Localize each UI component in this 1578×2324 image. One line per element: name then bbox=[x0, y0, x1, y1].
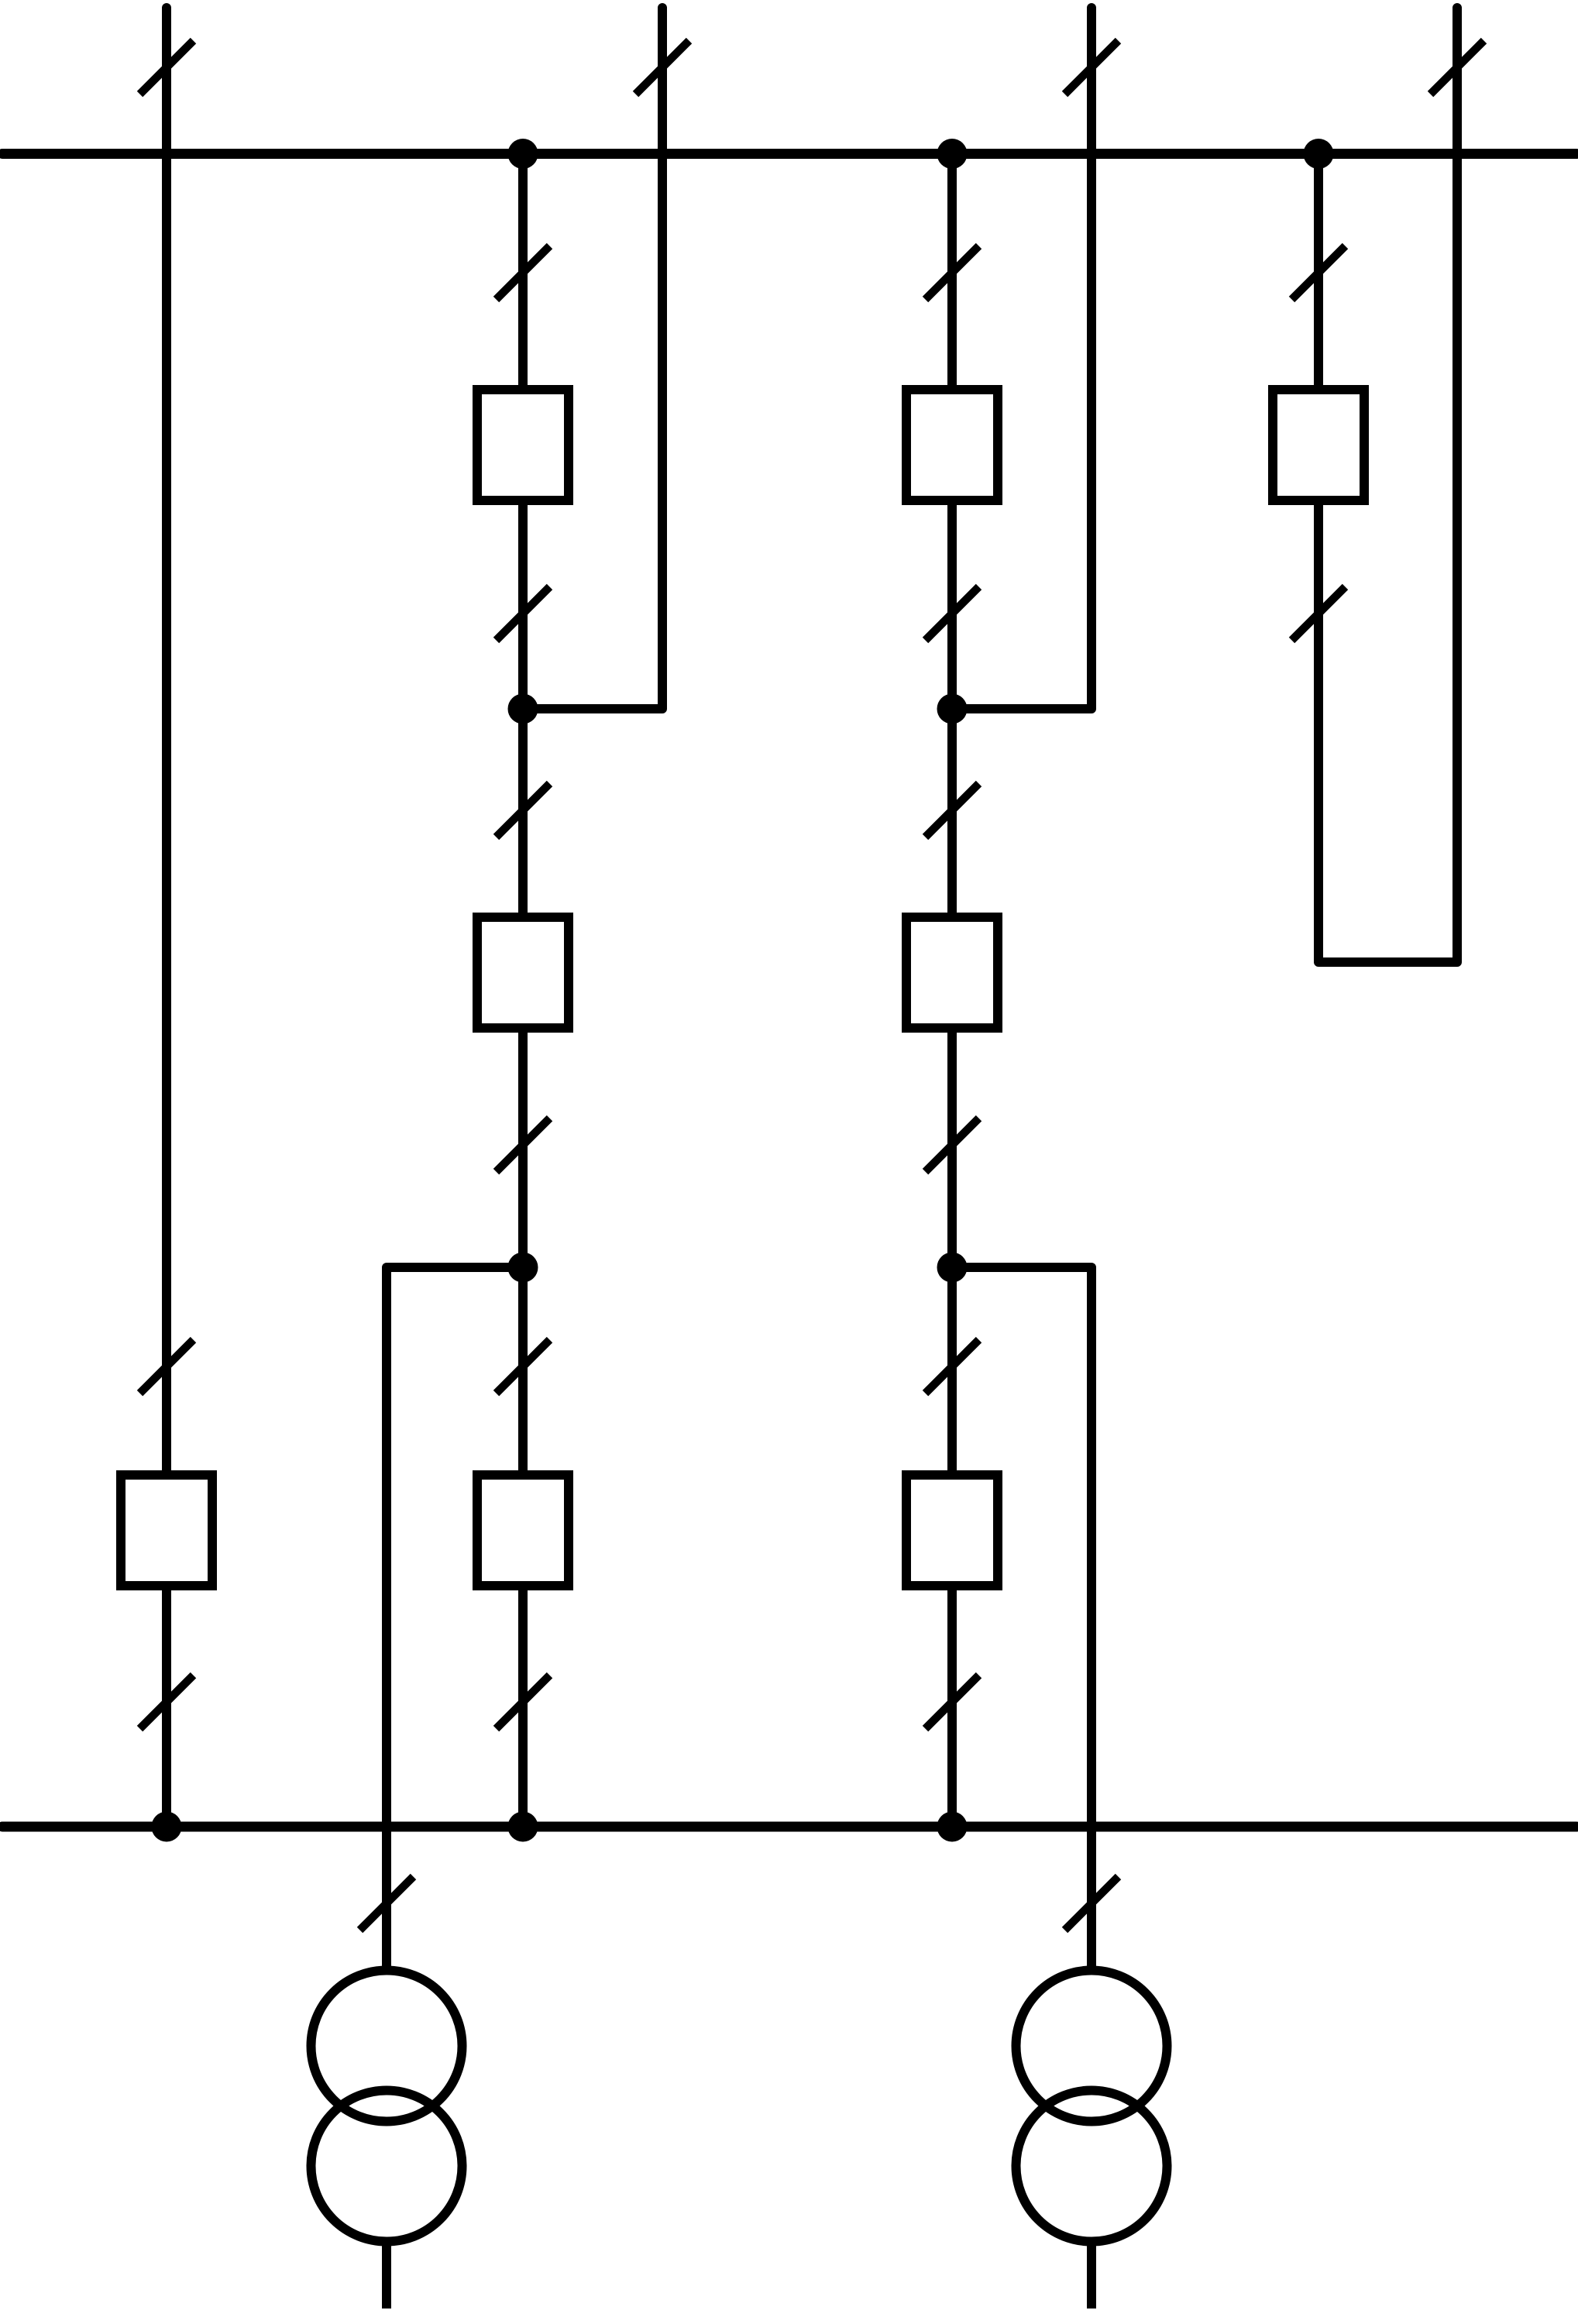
circuit breaker QF2 (bay A, upper) bbox=[477, 390, 569, 500]
junction dot: node A1 bbox=[508, 694, 538, 724]
disconnector QS6 slash (line exit x=855, above top bus) bbox=[636, 41, 689, 95]
disconnector QS21 slash (bay C, below QF8) bbox=[1292, 587, 1346, 641]
disconnector QS10 slash (bay A, below QF4) bbox=[497, 1676, 550, 1729]
wire: bay A vertical x=675 bbox=[518, 154, 528, 1827]
circuit breaker QF8 (bay C) bbox=[1273, 390, 1364, 500]
disconnector QS5 slash (bay A, below QF2) bbox=[497, 587, 550, 641]
wire: left feeder vertical x=215 bbox=[162, 8, 171, 1827]
junction dot: bay A to top bus bbox=[508, 139, 538, 169]
disconnector QS17 slash (bay B, below node B2) bbox=[926, 1340, 979, 1394]
wire: branch from node A2 to transformer T1 bbox=[387, 1267, 523, 1968]
disconnector QS15 slash (bay B, below node B1) bbox=[926, 784, 979, 837]
circuit breaker QF6 (bay B, middle) bbox=[906, 917, 998, 1028]
disconnector QS4 slash (bay A, below top bus) bbox=[497, 246, 550, 300]
transformer T2 secondary winding bbox=[1016, 2091, 1167, 2242]
disconnector QS2 slash (left feeder, above breaker QF1) bbox=[140, 1340, 194, 1394]
disconnector QS18 slash (bay B, below QF7) bbox=[926, 1676, 979, 1729]
junction dot: left feeder to bottom bus bbox=[152, 1812, 182, 1842]
circuit breaker QF4 (bay A, lower) bbox=[477, 1475, 569, 1586]
wire: transformer T2 tail bbox=[1087, 2242, 1096, 2309]
junction dot: node B1 bbox=[937, 694, 968, 724]
disconnector QS1 slash (left feeder, above top bus) bbox=[140, 41, 194, 95]
bottom busbar W2 bbox=[2, 1822, 1576, 1832]
wire: transformer T1 tail bbox=[382, 2242, 391, 2309]
top busbar W1 bbox=[2, 149, 1576, 159]
junction dot: bay A to bottom bus bbox=[508, 1812, 538, 1842]
junction dot: node A2 bbox=[508, 1253, 538, 1283]
junction dot: bay B to bottom bus bbox=[937, 1812, 968, 1842]
disconnector QS13 slash (bay B, below QF5) bbox=[926, 587, 979, 641]
wire: bypass from node A1 up to line exit x=855 bbox=[523, 8, 662, 709]
disconnector QS11 slash (transformer T1 branch, below bottom bus) bbox=[360, 1877, 414, 1930]
disconnector QS8 slash (bay A, below QF3) bbox=[497, 1119, 550, 1172]
disconnector QS12 slash (bay B, below top bus) bbox=[926, 246, 979, 300]
disconnector QS19 slash (transformer T2 branch, below bottom bus) bbox=[1065, 1877, 1119, 1930]
junction dot: node B2 bbox=[937, 1253, 968, 1283]
circuit breaker QF7 (bay B, lower) bbox=[906, 1475, 998, 1586]
transformer T1 primary winding bbox=[311, 1971, 462, 2122]
disconnector QS9 slash (bay A, below node A2) bbox=[497, 1340, 550, 1394]
circuit breaker QF5 (bay B, upper) bbox=[906, 390, 998, 500]
disconnector QS22 slash (line exit x=1881, above top bus) bbox=[1431, 41, 1484, 95]
wire: branch from node B2 to transformer T2 bbox=[952, 1267, 1092, 1968]
circuit breaker QF3 (bay A, middle) bbox=[477, 917, 569, 1028]
disconnector QS20 slash (bay C, below top bus) bbox=[1292, 246, 1346, 300]
wire: bay B vertical x=1229 bbox=[947, 154, 957, 1827]
disconnector QS14 slash (line exit x=1409, above top bus) bbox=[1065, 41, 1119, 95]
transformer T1 secondary winding bbox=[311, 2091, 462, 2242]
disconnector QS7 slash (bay A, below node A1) bbox=[497, 784, 550, 837]
transformer T2 primary winding bbox=[1016, 1971, 1167, 2122]
junction dot: bay B to top bus bbox=[937, 139, 968, 169]
junction dot: bay C to top bus bbox=[1304, 139, 1334, 169]
circuit breaker QF1 (left feeder) bbox=[121, 1475, 212, 1586]
wire: bypass from node B1 up to line exit x=1409 bbox=[952, 8, 1092, 709]
disconnector QS3 slash (left feeder, below breaker QF1) bbox=[140, 1676, 194, 1729]
wire: bay C vertical x=1702 with U-turn to line exit x=1881 bbox=[1318, 8, 1457, 962]
disconnector QS16 slash (bay B, below QF6) bbox=[926, 1119, 979, 1172]
